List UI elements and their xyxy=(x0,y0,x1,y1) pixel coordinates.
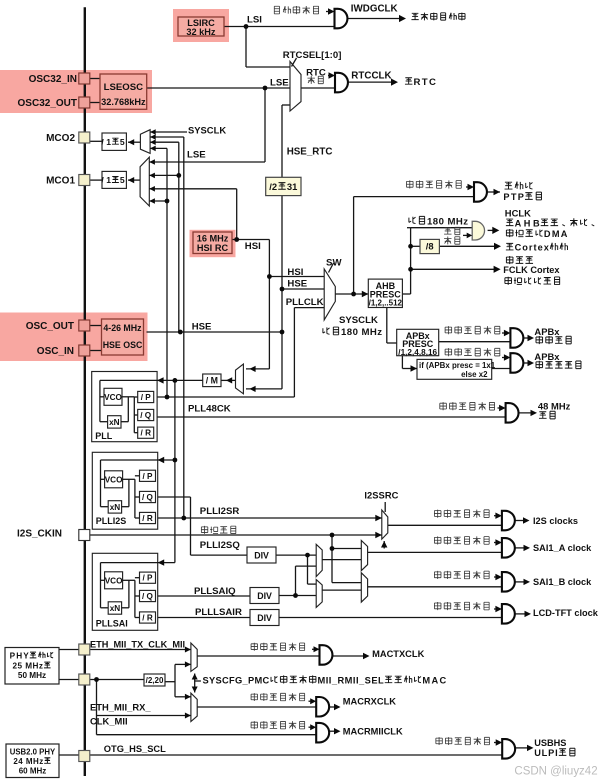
svg-text:5: 5 xyxy=(120,175,125,185)
svg-text:/ M: / M xyxy=(206,376,218,386)
svg-text:ETH_MII_RX_: ETH_MII_RX_ xyxy=(90,702,151,713)
svg-text:/1: /1 xyxy=(101,175,111,185)
svg-text:ETH_MII_TX_CLK_MII: ETH_MII_TX_CLK_MII xyxy=(90,639,185,649)
svg-text:/1,2,..512: /1,2,..512 xyxy=(369,299,403,308)
svg-text:PLLCLK: PLLCLK xyxy=(286,297,324,308)
svg-text:PLLSAIQ: PLLSAIQ xyxy=(194,586,236,597)
svg-text:RTCCLK: RTCCLK xyxy=(351,70,391,81)
svg-text:50 MHz: 50 MHz xyxy=(18,671,46,680)
svg-text:MACRMIICLK: MACRMIICLK xyxy=(343,727,403,737)
svg-text:MACTXCLK: MACTXCLK xyxy=(372,649,424,659)
svg-text:I2SSRC: I2SSRC xyxy=(364,489,398,500)
svg-text:ULPI: ULPI xyxy=(534,748,558,758)
svg-text:LCD-TFT clock: LCD-TFT clock xyxy=(533,608,599,618)
svg-text:/ P: / P xyxy=(143,574,154,583)
svg-text:/ R: / R xyxy=(142,514,153,523)
svg-text:xN: xN xyxy=(110,604,121,613)
svg-text:24 MHz: 24 MHz xyxy=(13,757,43,766)
svg-text:/1,2,4,8,16: /1,2,4,8,16 xyxy=(398,348,437,357)
svg-text:RTCSEL[1:0]: RTCSEL[1:0] xyxy=(283,50,342,61)
svg-text:/1: /1 xyxy=(101,137,111,147)
svg-text:/ Q: / Q xyxy=(142,493,154,502)
svg-text:32 kHz: 32 kHz xyxy=(186,27,216,37)
svg-text:USBHS: USBHS xyxy=(534,738,566,748)
svg-text:/2,20: /2,20 xyxy=(146,676,164,685)
svg-text:MII_RMII_SEL: MII_RMII_SEL xyxy=(318,675,385,685)
svg-text:31: 31 xyxy=(287,181,298,192)
svg-text:if (APBx presc = 1x1: if (APBx presc = 1x1 xyxy=(419,361,496,370)
svg-text:LSEOSC: LSEOSC xyxy=(104,82,144,93)
svg-text:PLLI2S: PLLI2S xyxy=(96,516,127,526)
svg-text:MCO2: MCO2 xyxy=(46,133,75,144)
svg-text:OSC32_IN: OSC32_IN xyxy=(29,74,77,85)
svg-text:/ P: / P xyxy=(143,472,154,481)
svg-text:SYSCFG_PMC: SYSCFG_PMC xyxy=(203,675,270,685)
svg-text:OTG_HS_SCL: OTG_HS_SCL xyxy=(104,744,166,754)
svg-text:VCO: VCO xyxy=(105,475,123,484)
svg-text:HSE: HSE xyxy=(287,278,307,289)
svg-text:DMA: DMA xyxy=(544,229,568,239)
svg-text:OSC32_OUT: OSC32_OUT xyxy=(18,98,78,109)
svg-text:16 MHz: 16 MHz xyxy=(197,233,229,243)
svg-text:USB2.0 PHY: USB2.0 PHY xyxy=(10,747,56,756)
svg-text:HSE OSC: HSE OSC xyxy=(103,340,143,350)
svg-text:PLL: PLL xyxy=(95,431,113,441)
svg-text:PLL48CK: PLL48CK xyxy=(188,404,231,415)
svg-text:xN: xN xyxy=(110,503,121,512)
svg-text:DIV: DIV xyxy=(257,591,272,601)
svg-text:Cortex: Cortex xyxy=(515,243,550,253)
svg-text:PLLSAI: PLLSAI xyxy=(96,619,128,629)
svg-text:SAI1_B clock: SAI1_B clock xyxy=(533,577,592,587)
svg-text:HSI RC: HSI RC xyxy=(197,243,229,253)
svg-text:PLLI2SR: PLLI2SR xyxy=(200,506,240,517)
svg-text:xN: xN xyxy=(109,418,120,427)
svg-text:MAC: MAC xyxy=(422,675,446,685)
svg-text:FCLK Cortex: FCLK Cortex xyxy=(503,265,560,275)
svg-text:PTP: PTP xyxy=(503,192,524,202)
svg-text:5: 5 xyxy=(120,137,125,147)
svg-text:48 MHz: 48 MHz xyxy=(538,401,571,412)
svg-text:/8: /8 xyxy=(426,241,434,252)
svg-text:HSE_RTC: HSE_RTC xyxy=(287,146,333,157)
svg-text:HSI: HSI xyxy=(245,241,261,252)
svg-text:SW: SW xyxy=(326,258,342,269)
svg-text:DIV: DIV xyxy=(257,613,272,623)
svg-text:/2: /2 xyxy=(269,181,277,192)
svg-text:60 MHz: 60 MHz xyxy=(19,766,47,775)
svg-text:APBx: APBx xyxy=(534,326,560,337)
svg-text:RTC: RTC xyxy=(306,67,326,78)
svg-text:RTC: RTC xyxy=(414,77,436,88)
svg-text:DIV: DIV xyxy=(254,551,269,561)
svg-text:PLLLSAIR: PLLLSAIR xyxy=(195,607,242,618)
svg-text:PLLI2SQ: PLLI2SQ xyxy=(200,540,241,551)
svg-text:MACRXCLK: MACRXCLK xyxy=(343,697,396,707)
svg-text:/ P: / P xyxy=(141,393,152,402)
svg-text:/ R: / R xyxy=(142,614,153,623)
svg-text:CLK_MII: CLK_MII xyxy=(90,716,128,727)
svg-text:LSI: LSI xyxy=(247,15,262,26)
svg-text:CSDN @liuyz42: CSDN @liuyz42 xyxy=(514,766,597,778)
svg-text:/ Q: / Q xyxy=(140,411,152,420)
svg-text:/ R: / R xyxy=(141,429,152,438)
svg-text:MCO1: MCO1 xyxy=(46,176,75,187)
svg-text:32.768kHz: 32.768kHz xyxy=(101,97,146,107)
svg-text:4-26 MHz: 4-26 MHz xyxy=(103,323,142,333)
svg-text:HSE: HSE xyxy=(192,322,212,333)
svg-text:180 MHz: 180 MHz xyxy=(427,216,468,227)
svg-text:APBx: APBx xyxy=(534,351,560,362)
svg-text:SYSCLK: SYSCLK xyxy=(188,124,226,135)
svg-text:LSE: LSE xyxy=(270,78,289,89)
svg-text:PHY: PHY xyxy=(10,652,30,661)
svg-text:OSC_IN: OSC_IN xyxy=(37,346,74,357)
svg-text:25 MHz: 25 MHz xyxy=(13,662,44,671)
svg-text:SYSCLK: SYSCLK xyxy=(339,315,378,326)
svg-text:else x2: else x2 xyxy=(461,370,488,379)
svg-text:AHB: AHB xyxy=(515,218,540,228)
svg-text:VCO: VCO xyxy=(104,393,122,402)
svg-text:SAI1_A clock: SAI1_A clock xyxy=(533,543,592,553)
svg-text:IWDGCLK: IWDGCLK xyxy=(351,4,398,15)
svg-text:VCO: VCO xyxy=(105,576,123,585)
svg-text:I2S_CKIN: I2S_CKIN xyxy=(17,529,62,540)
svg-text:HCLK: HCLK xyxy=(505,207,531,218)
svg-text:I2S clocks: I2S clocks xyxy=(533,516,578,526)
svg-text:HSI: HSI xyxy=(287,267,303,278)
svg-text:/ Q: / Q xyxy=(142,592,154,601)
svg-text:180 MHz: 180 MHz xyxy=(341,327,382,338)
svg-text:OSC_OUT: OSC_OUT xyxy=(26,321,74,332)
svg-text:LSE: LSE xyxy=(187,150,206,161)
